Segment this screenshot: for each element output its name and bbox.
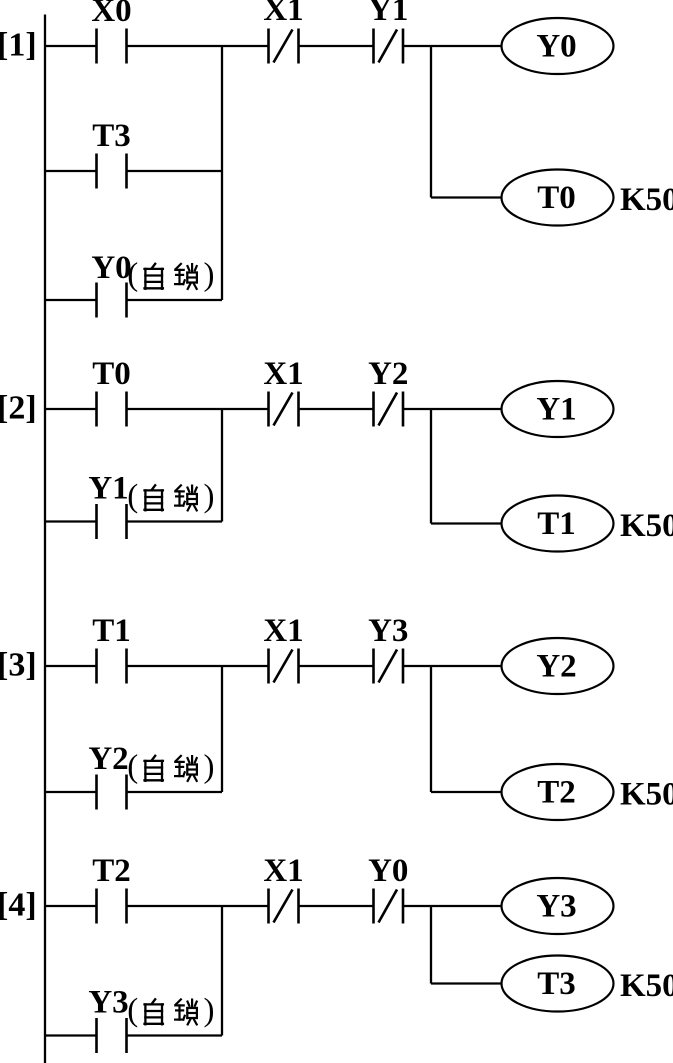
coil T1: [502, 496, 614, 552]
label (自锁) rung 1: [127, 257, 214, 293]
svg-text:): ): [204, 993, 215, 1029]
wire Y2 to branch: [127, 791, 223, 793]
svg-text:Y2: Y2: [368, 356, 408, 392]
wire X1 to Y2: [299, 408, 374, 410]
wire Y1 to coil Y0: [403, 45, 502, 47]
svg-text:(: (: [127, 479, 138, 515]
label (自锁) rung 3: [127, 749, 214, 785]
label (自锁) rung 2: [127, 479, 214, 515]
contact Y1 (NC): [374, 29, 404, 64]
wire branch to coil T2: [431, 791, 502, 793]
svg-text:Y3: Y3: [88, 985, 128, 1021]
svg-text:[1]: [1]: [0, 27, 37, 64]
coil Y3: [502, 878, 614, 934]
wire T3 to branch: [127, 170, 223, 172]
coil Y1: [502, 381, 614, 437]
svg-text:Y1: Y1: [536, 392, 576, 428]
contact Y0 (NC): [374, 889, 404, 924]
wire T1 to X1: [127, 665, 269, 667]
contact T0 (NO): [97, 392, 127, 427]
svg-text:K50: K50: [620, 182, 673, 218]
svg-text:(: (: [127, 993, 138, 1029]
coil Y2: [502, 638, 614, 694]
wire T0 to X1: [127, 408, 269, 410]
svg-text:X1: X1: [263, 0, 303, 28]
wire Y3 to coil Y2: [403, 665, 502, 667]
svg-text:X1: X1: [263, 356, 303, 392]
contact Y0 (NO self-lock): [97, 283, 127, 318]
branch wire down to coil T2: [430, 666, 432, 792]
wire branch to coil T0: [431, 196, 502, 198]
contact X0 (NO): [97, 29, 127, 64]
svg-text:(: (: [127, 257, 138, 293]
wire branch to coil T3: [431, 982, 502, 984]
svg-text:K50: K50: [620, 508, 673, 544]
svg-text:Y2: Y2: [88, 741, 128, 777]
svg-text:Y1: Y1: [88, 471, 128, 507]
wire rail to contact X0: [45, 45, 97, 47]
svg-text:(: (: [127, 749, 138, 785]
contact Y1 (NO self-lock): [97, 504, 127, 539]
wire X1 to Y0: [299, 905, 374, 907]
wire rail to contact Y1: [45, 520, 97, 522]
wire X1 to Y1: [299, 45, 374, 47]
contact Y2 (NC): [374, 392, 404, 427]
branch wire down to parallel contacts: [221, 46, 223, 300]
svg-text:T2: T2: [92, 853, 131, 889]
wire X1 to Y3: [299, 665, 374, 667]
wire rail to contact T3: [45, 170, 97, 172]
branch wire down to coil T3: [430, 906, 432, 984]
contact Y2 (NO self-lock): [97, 775, 127, 810]
svg-text:K50: K50: [620, 777, 673, 813]
svg-text:Y3: Y3: [368, 613, 408, 649]
wire rail to contact Y0: [45, 299, 97, 301]
svg-text:X1: X1: [263, 853, 303, 889]
svg-text:K50: K50: [620, 968, 673, 1004]
svg-text:T1: T1: [537, 506, 576, 542]
contact X1 (NC): [269, 889, 299, 924]
svg-text:Y1: Y1: [368, 0, 408, 28]
wire branch to coil T1: [431, 522, 502, 524]
svg-text:Y0: Y0: [91, 250, 131, 286]
svg-text:[4]: [4]: [0, 887, 37, 924]
wire Y0 to coil Y3: [403, 905, 502, 907]
svg-text:T2: T2: [537, 775, 576, 811]
coil T0: [502, 170, 614, 226]
wire rail to contact T1: [45, 665, 97, 667]
contact X1 (NC): [269, 392, 299, 427]
coil Y0: [502, 18, 614, 74]
branch wire down to coil T1: [430, 409, 432, 524]
contact Y3 (NO self-lock): [97, 1018, 127, 1053]
wire Y1 to branch: [127, 520, 223, 522]
wire Y0 to branch: [127, 299, 223, 301]
svg-text:): ): [204, 479, 215, 515]
svg-text:X1: X1: [263, 613, 303, 649]
svg-text:[2]: [2]: [0, 390, 37, 427]
contact T1 (NO): [97, 649, 127, 684]
svg-text:T3: T3: [92, 118, 131, 154]
svg-text:T1: T1: [92, 613, 131, 649]
wire rail to contact Y2: [45, 791, 97, 793]
branch wire down to self-lock contact: [221, 409, 223, 522]
wire Y2 to coil Y1: [403, 408, 502, 410]
coil T2: [502, 764, 614, 820]
label (自锁) rung 4: [127, 993, 214, 1029]
svg-text:Y0: Y0: [368, 853, 408, 889]
svg-text:Y3: Y3: [536, 889, 576, 925]
svg-text:X0: X0: [91, 0, 131, 29]
svg-text:): ): [204, 257, 215, 293]
svg-text:Y0: Y0: [536, 29, 576, 65]
wire rail to contact T0: [45, 408, 97, 410]
contact T3 (NO): [97, 154, 127, 189]
left power rail: [44, 15, 46, 1063]
contact X1 (NC): [269, 29, 299, 64]
svg-text:T0: T0: [92, 356, 131, 392]
branch wire down to coil T0: [430, 46, 432, 198]
wire rail to contact Y3: [45, 1034, 97, 1036]
svg-text:T3: T3: [537, 966, 576, 1002]
wire X0 to X1: [127, 45, 269, 47]
svg-text:): ): [204, 749, 215, 785]
coil T3: [502, 956, 614, 1012]
contact X1 (NC): [269, 649, 299, 684]
contact Y3 (NC): [374, 649, 404, 684]
wire T2 to X1: [127, 905, 269, 907]
wire rail to contact T2: [45, 905, 97, 907]
contact T2 (NO): [97, 889, 127, 924]
svg-text:Y2: Y2: [536, 649, 576, 685]
svg-text:T0: T0: [537, 180, 576, 216]
svg-text:[3]: [3]: [0, 647, 37, 684]
branch wire down to self-lock contact: [221, 666, 223, 792]
branch wire down to self-lock contact: [221, 906, 223, 1036]
wire Y3 to branch: [127, 1034, 223, 1036]
